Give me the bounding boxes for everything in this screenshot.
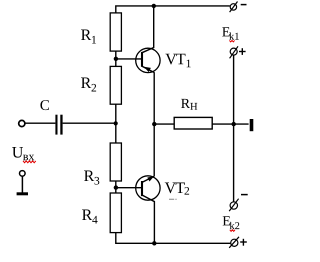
junction VT1 base (114, 57, 118, 61)
wire VT1 base (116, 58, 142, 60)
spellcheck squiggle under k2 (230, 230, 235, 232)
resistor R1 (110, 13, 121, 51)
terminal Ek2 minus (229, 195, 248, 212)
output bar terminal (250, 119, 254, 131)
wire top rail (116, 6, 230, 13)
terminal Ek1 plus (230, 46, 246, 58)
resistor R3 (110, 143, 121, 181)
wire R2-R3 (115, 104, 117, 143)
resistor RH (174, 117, 212, 129)
label RH (181, 99, 197, 110)
junction VT2 base (114, 185, 118, 189)
wire mid emitter rail (153, 72, 155, 176)
capacitor C (55, 115, 62, 135)
label Ek2 (223, 216, 240, 229)
junction top rail (152, 4, 156, 8)
transistor VT1 (136, 6, 160, 73)
label R4 (82, 210, 98, 224)
spellcheck squiggle under k1 (229, 40, 234, 42)
terminal Ek1 minus (230, 2, 247, 13)
resistor R2 (110, 66, 121, 104)
label VT2 (165, 183, 189, 195)
terminal Ek2 plus (229, 237, 247, 248)
wire VT2 base (116, 187, 142, 189)
transistor VT2 (136, 176, 160, 244)
label R2 (81, 78, 96, 92)
junction bottom rail (152, 241, 156, 245)
junction input node (114, 121, 118, 125)
junction right rail (232, 122, 236, 126)
input source terminal (20, 171, 26, 177)
spellcheck squiggle under vx (23, 161, 36, 163)
wire RH right (212, 123, 248, 125)
wire right rail (233, 55, 235, 202)
label Uvx (12, 147, 34, 160)
label VT1 (165, 54, 190, 67)
resistor R4 (110, 193, 121, 233)
ground (17, 192, 28, 195)
wire R3-R4 (115, 181, 117, 193)
label R1 (81, 30, 96, 44)
input terminal (19, 120, 25, 126)
junction emitters RH (152, 122, 156, 126)
wire RH left (154, 123, 174, 125)
label R3 (84, 171, 99, 185)
label Ek1 (222, 27, 239, 39)
label C (40, 100, 49, 110)
wire input to capacitor (25, 122, 55, 124)
wire bottom rail (116, 233, 231, 244)
wire capacitor to node (63, 122, 116, 124)
wire R1-R2 (115, 51, 117, 66)
smudge under VT2 (169, 199, 177, 200)
wire source stem (21, 176, 23, 192)
